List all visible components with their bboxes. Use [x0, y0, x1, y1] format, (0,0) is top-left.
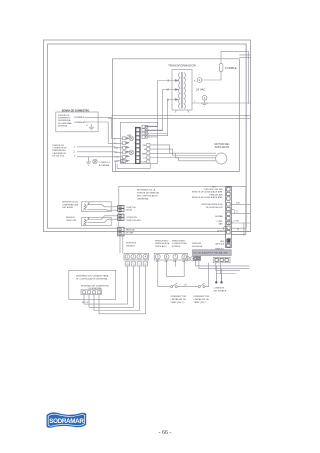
wire row B1 to switch run: [158, 260, 171, 287]
SECTION-SENSORS: [62, 201, 141, 236]
wire T to board row5: [77, 156, 120, 158]
interface box subtitle: [81, 284, 110, 290]
wire interface 3 loop: [94, 266, 139, 310]
wire interface 2 loop: [89, 266, 133, 307]
svg-text:PRESION ALTA: PRESION ALTA: [155, 242, 170, 245]
wire stub node4: [223, 223, 250, 235]
switch SW2: [198, 283, 205, 288]
heater supply text: [53, 145, 68, 157]
interface strip labels: [82, 302, 89, 304]
wire transformer primary M drop: [145, 90, 175, 131]
right terminal strip TB2: [226, 187, 232, 248]
wire sec top to fuse bottom: [202, 71, 221, 80]
wire pump box to board B: [89, 122, 120, 143]
switch SW2 label: [194, 296, 210, 304]
svg-text:FAN: FAN: [142, 152, 146, 155]
svg-text:2: 2: [74, 151, 76, 154]
fuse F1: [219, 64, 223, 72]
svg-text:TEMP DEL: TEMP DEL: [126, 207, 137, 209]
svg-text:- 66 -: - 66 -: [159, 430, 172, 436]
heater terminal T: [74, 156, 76, 159]
transformer pin M: [167, 88, 179, 92]
svg-text:SW: SW: [165, 261, 168, 263]
interface box: [69, 270, 116, 299]
wire spa pair line A: [195, 260, 249, 266]
svg-text:GAS: GAS: [218, 223, 223, 226]
wire equip corner right: [239, 55, 250, 58]
wire RT2 to strip b: [88, 219, 118, 222]
svg-text:COMP: COMP: [217, 221, 224, 223]
pump power supply box: [56, 112, 98, 132]
svg-text:EL CONTROLADOR UNIVERSAL: EL CONTROLADOR UNIVERSAL: [76, 277, 108, 280]
bus wire 24v A: [112, 115, 251, 117]
wire transformer sec bottom bus: [192, 99, 251, 103]
wire valve strip drop 2: [122, 236, 124, 253]
right labels block: [192, 188, 223, 233]
svg-text:F: F: [87, 125, 89, 127]
svg-text:DE GAS: DE GAS: [126, 231, 134, 234]
page number: [159, 430, 172, 436]
logo SODRAMAR: [47, 412, 87, 427]
bottom labels conexion fusible: [172, 239, 188, 247]
svg-text:SODRAMAR: SODRAMAR: [49, 418, 84, 425]
svg-text:CONEXION: CONEXION: [126, 217, 137, 219]
svg-text:BOMBA M: BOMBA M: [75, 121, 85, 124]
sensor terminal strip: [118, 205, 124, 236]
svg-text:R: R: [145, 264, 147, 266]
svg-text:CONEXION DEL: CONEXION DEL: [172, 243, 188, 245]
transformer label: [168, 64, 197, 68]
svg-text:FUSIBLE: FUSIBLE: [172, 246, 181, 248]
fusible link terminals: [215, 281, 222, 283]
earth circled symbol: [93, 159, 97, 163]
wire pump box to board A: [89, 117, 120, 138]
wire top terminals to transformer drops: [145, 127, 168, 137]
svg-text:L: L: [74, 146, 76, 149]
wire remote box nest d: [221, 263, 236, 274]
controller power interface box: [119, 186, 246, 234]
svg-text:INT. DEL AGUA POOL PISCINA / S: INT. DEL AGUA POOL PISCINA / SPA: [194, 252, 229, 255]
svg-text:AGUA: AGUA: [126, 209, 132, 212]
board left terminal row: [120, 137, 125, 163]
switch SW1: [171, 283, 178, 288]
svg-text:DE LA BOMBA: DE LA BOMBA: [58, 122, 72, 125]
ground pump box: [89, 124, 94, 130]
aux box right: [227, 238, 231, 244]
wire RT1 to strip b: [88, 209, 118, 212]
svg-text:LIMITE ALTO: LIMITE ALTO: [155, 245, 167, 248]
svg-text:INTERRUP.: INTERRUP.: [126, 243, 137, 245]
gray header bar spa: [193, 250, 232, 256]
wire stub node2: [231, 210, 251, 214]
border frame inner: [48, 44, 247, 228]
equipment enclosure box: [113, 59, 240, 172]
wire switch link: [177, 286, 199, 288]
ground heater earth: [86, 157, 91, 165]
svg-text:A TIERRA: A TIERRA: [99, 164, 109, 167]
svg-text:INTERFAZ DEL SUMINISTRO: INTERFAZ DEL SUMINISTRO: [81, 284, 110, 287]
svg-text:VALVULA: VALVULA: [126, 229, 135, 232]
svg-text:1: 1: [204, 96, 206, 100]
pump box terminal BOMBA M: [75, 121, 90, 124]
controller power interface text: [137, 188, 159, 200]
fuse label: [225, 66, 237, 70]
wire board to equip bottom left: [116, 161, 121, 172]
wire valve strip drop 1: [119, 236, 121, 253]
svg-text:M: M: [185, 285, 187, 287]
svg-text:t: t: [195, 99, 196, 103]
wire board to motor 3: [150, 153, 216, 158]
svg-text:SENSOR DE LA SALIDA DE AIRE: SENSOR DE LA SALIDA DE AIRE: [192, 191, 223, 194]
wire 2 to board row4: [77, 151, 120, 154]
ground transformer secondary: [201, 103, 208, 106]
svg-text:TRANSFORMADOR: TRANSFORMADOR: [168, 64, 197, 68]
svg-text:M 1 2 R: M 1 2 R: [82, 302, 89, 304]
svg-text:BOMBA X: BOMBA X: [75, 116, 85, 119]
wire transformer primary N drop: [145, 100, 175, 136]
svg-text:BOMBA: BOMBA: [215, 215, 223, 218]
svg-text:DE AGUA: DE AGUA: [58, 124, 68, 127]
svg-text:INTERRUPTOR: INTERRUPTOR: [171, 296, 187, 298]
svg-text:VENTILADOR/REJILLA: VENTILADOR/REJILLA: [201, 203, 223, 206]
svg-text:REJ: REJ: [220, 241, 224, 243]
row A square labels: [125, 262, 147, 266]
svg-text:5: 5: [157, 255, 159, 259]
spa square pair terminal: [194, 257, 201, 261]
rej valvula labels: [215, 241, 224, 251]
heater terminal 2: [74, 151, 76, 154]
row B pin labels: [156, 261, 186, 263]
svg-text:T: T: [74, 156, 76, 159]
svg-text:VALVULA: VALVULA: [215, 243, 224, 246]
svg-text:SW: SW: [156, 261, 159, 263]
wire board to motor 4: [150, 158, 216, 161]
svg-text:PSW: PSW: [114, 161, 119, 163]
motor label: [214, 142, 230, 149]
right header small label: [212, 187, 217, 189]
wire fusible drop right: [221, 269, 223, 282]
pump box F terminal: [87, 125, 89, 127]
svg-text:TOMA DEL AIR: TOMA DEL AIR: [209, 193, 223, 196]
board right pin labels: [141, 145, 146, 164]
bottom labels presion: [192, 243, 203, 248]
svg-text:V: V: [133, 264, 135, 266]
node 1 circled: [202, 95, 207, 102]
SECTION-BOARD: [114, 123, 168, 254]
sensor strip labels: [126, 207, 141, 222]
thermistor RT2: [83, 218, 89, 225]
svg-text:PRESOSTATO: PRESOSTATO: [155, 239, 169, 242]
border frame outer: [44, 40, 251, 232]
svg-text:7: 7: [175, 255, 177, 259]
wire row B3 stub: [174, 260, 176, 267]
wire fuse top to right rail: [221, 52, 249, 104]
svg-text:L1: L1: [114, 139, 117, 141]
remote terminal box 3sq: [213, 257, 230, 263]
igniter HSI circle: [127, 135, 133, 141]
svg-text:FUSIBLE: FUSIBLE: [225, 66, 237, 70]
wire remote box nest c: [216, 263, 240, 271]
bus wire 24v B: [108, 117, 250, 119]
pump box text left: [58, 115, 72, 127]
svg-text:24 VG: 24 VG: [217, 231, 223, 233]
node 2 circled: [194, 78, 202, 83]
SECTION-TOP: [108, 52, 250, 164]
sensor temp off label: [66, 217, 77, 222]
SECTION-RIGHT: [119, 44, 251, 250]
transformer pin N: [167, 98, 178, 102]
svg-text:IND: IND: [143, 145, 147, 147]
svg-text:LO: LO: [143, 158, 146, 160]
svg-text:24 VAC: 24 VAC: [196, 88, 205, 92]
svg-text:2: 2: [133, 255, 135, 259]
transformer T1: [172, 70, 192, 113]
switch SW1 label: [171, 296, 187, 304]
svg-text:3: 3: [139, 255, 141, 259]
wire interface 1 loop: [84, 266, 127, 304]
SECTION-LEFT: [53, 109, 121, 166]
wire RT1 to strip a: [88, 205, 118, 207]
board outer bottom outline: [117, 164, 150, 169]
wire fusible drop left: [215, 266, 217, 281]
wire switch2 riser: [205, 263, 209, 287]
board left pin labels: [114, 139, 119, 164]
sensor RT2 box: [82, 217, 112, 225]
wire spa pair line B: [199, 260, 250, 268]
wire board to motor 1: [150, 145, 216, 153]
switch M label: [185, 285, 187, 287]
svg-text:INTERFACE DE LA: INTERFACE DE LA: [137, 188, 156, 191]
right rail vertical A: [245, 44, 247, 228]
label 24 VAC: [196, 88, 205, 92]
thermistor RT1: [83, 203, 89, 211]
svg-text:SW: SW: [173, 261, 176, 263]
wire interface 4 loop: [99, 266, 145, 314]
svg-text:DEL FUSIBLE: DEL FUSIBLE: [214, 290, 227, 292]
wire stub 240: [231, 202, 250, 204]
svg-text:PRESION: PRESION: [192, 243, 202, 245]
interface terminal strip: [81, 290, 102, 295]
pump box title: [62, 109, 90, 112]
svg-text:SENSOR: SENSOR: [66, 217, 75, 219]
bottom labels interruptores: [126, 243, 137, 248]
svg-text:DE ENERGIA: DE ENERGIA: [58, 119, 71, 122]
spa circles 2 3: [186, 257, 195, 261]
interface box title: [76, 275, 109, 281]
svg-text:SENSOR DE LA SALIDA DE AIRE: SENSOR DE LA SALIDA DE AIRE: [192, 196, 223, 199]
board connector J1 strip: [135, 127, 140, 164]
svg-text:4: 4: [237, 227, 239, 231]
svg-text:CONEXION: CONEXION: [214, 288, 225, 290]
igniter circle 2: [129, 150, 134, 155]
motor M1 blower: [216, 153, 227, 164]
controller board U1: [120, 123, 157, 164]
svg-text:COM: COM: [141, 162, 146, 164]
board bottom-left terminal: [121, 159, 124, 162]
svg-text:COM: COM: [234, 221, 239, 223]
svg-text:DEL CONTROLADOR: DEL CONTROLADOR: [137, 194, 158, 197]
svg-text:4: 4: [145, 255, 147, 259]
svg-text:SOPLADOR: SOPLADOR: [215, 145, 230, 149]
fusible link label: [214, 288, 227, 293]
svg-text:LIMITADOR DE: LIMITADOR DE: [194, 298, 210, 301]
svg-text:x: x: [194, 79, 196, 83]
bottom labels presostato alto: [155, 239, 170, 247]
svg-text:6: 6: [166, 255, 168, 259]
board top-right terminal column: [142, 125, 148, 138]
svg-text:HSI: HSI: [127, 135, 131, 138]
svg-text:DEL AGUA: DEL AGUA: [192, 245, 203, 248]
board arrows left: [126, 137, 129, 161]
terminal circles row B strip: [154, 253, 188, 260]
svg-text:8: 8: [183, 255, 185, 259]
svg-text:C: C: [139, 264, 141, 266]
transformer pin 8: [167, 79, 178, 83]
water temp sensor label: [62, 201, 78, 209]
wire row B2 bypass: [167, 260, 185, 276]
terminal circles row A strip: [124, 253, 149, 260]
svg-text:DE 240 VCA: DE 240 VCA: [53, 154, 65, 157]
gas valve label: [126, 229, 135, 235]
svg-text:2: 2: [199, 78, 201, 82]
svg-text:SW: SW: [182, 261, 185, 263]
svg-text:2: 2: [236, 210, 238, 214]
svg-text:BOMBA DE SUMINISTRO: BOMBA DE SUMINISTRO: [62, 109, 90, 112]
wire stub COM: [228, 220, 251, 224]
svg-text:PRESOSTATO: PRESOSTATO: [172, 239, 186, 242]
svg-text:TORNILLO: TORNILLO: [99, 162, 110, 164]
svg-text:SENSOR DE LA: SENSOR DE LA: [62, 201, 78, 204]
heater terminal L: [74, 146, 76, 149]
wire transformer primary 8 drop: [145, 81, 175, 127]
svg-text:INTERFACE DEL USUARIO PARA: INTERFACE DEL USUARIO PARA: [76, 275, 109, 278]
svg-text:CALENTADOR: CALENTADOR: [53, 152, 67, 155]
svg-text:24: 24: [126, 264, 128, 266]
wire RT2 to strip a: [88, 216, 118, 220]
svg-text:ENERGIA DEL: ENERGIA DEL: [53, 149, 67, 152]
pump box terminal BOMBA X: [75, 116, 90, 119]
svg-text:FUENTE DE ENERGIA: FUENTE DE ENERGIA: [137, 191, 159, 194]
svg-text:TERMICO: TERMICO: [126, 245, 136, 247]
SECTION-BOTTOM: [69, 239, 250, 313]
svg-text:TEMP DEL APG: TEMP DEL APG: [126, 219, 141, 222]
sensor RT1 box: [82, 202, 112, 212]
svg-text:DEL AGUA: DEL AGUA: [62, 206, 73, 209]
svg-text:DE VENTILACION: DE VENTILACION: [206, 206, 223, 209]
svg-text:HI: HI: [144, 149, 146, 151]
wire board to motor 2: [150, 149, 216, 155]
svg-text:INTERRUPTOR: INTERRUPTOR: [194, 296, 210, 298]
earth label: [99, 162, 110, 167]
wire L to board row3: [77, 147, 120, 148]
fusible link jumper: [216, 274, 221, 282]
svg-text:UNIVERSAL: UNIVERSAL: [137, 197, 150, 200]
wire valvula drop: [243, 223, 245, 236]
svg-text:TEMP (24x C): TEMP (24x C): [171, 302, 185, 304]
svg-text:LIMITADOR DE: LIMITADOR DE: [171, 298, 187, 301]
svg-text:1: 1: [127, 255, 129, 259]
svg-text:TEMP OFF: TEMP OFF: [66, 220, 77, 222]
board right terminal column: [147, 143, 150, 163]
svg-text:TEMPERATURA: TEMPERATURA: [62, 203, 78, 206]
svg-text:TEMP (25) C: TEMP (25) C: [194, 302, 207, 304]
